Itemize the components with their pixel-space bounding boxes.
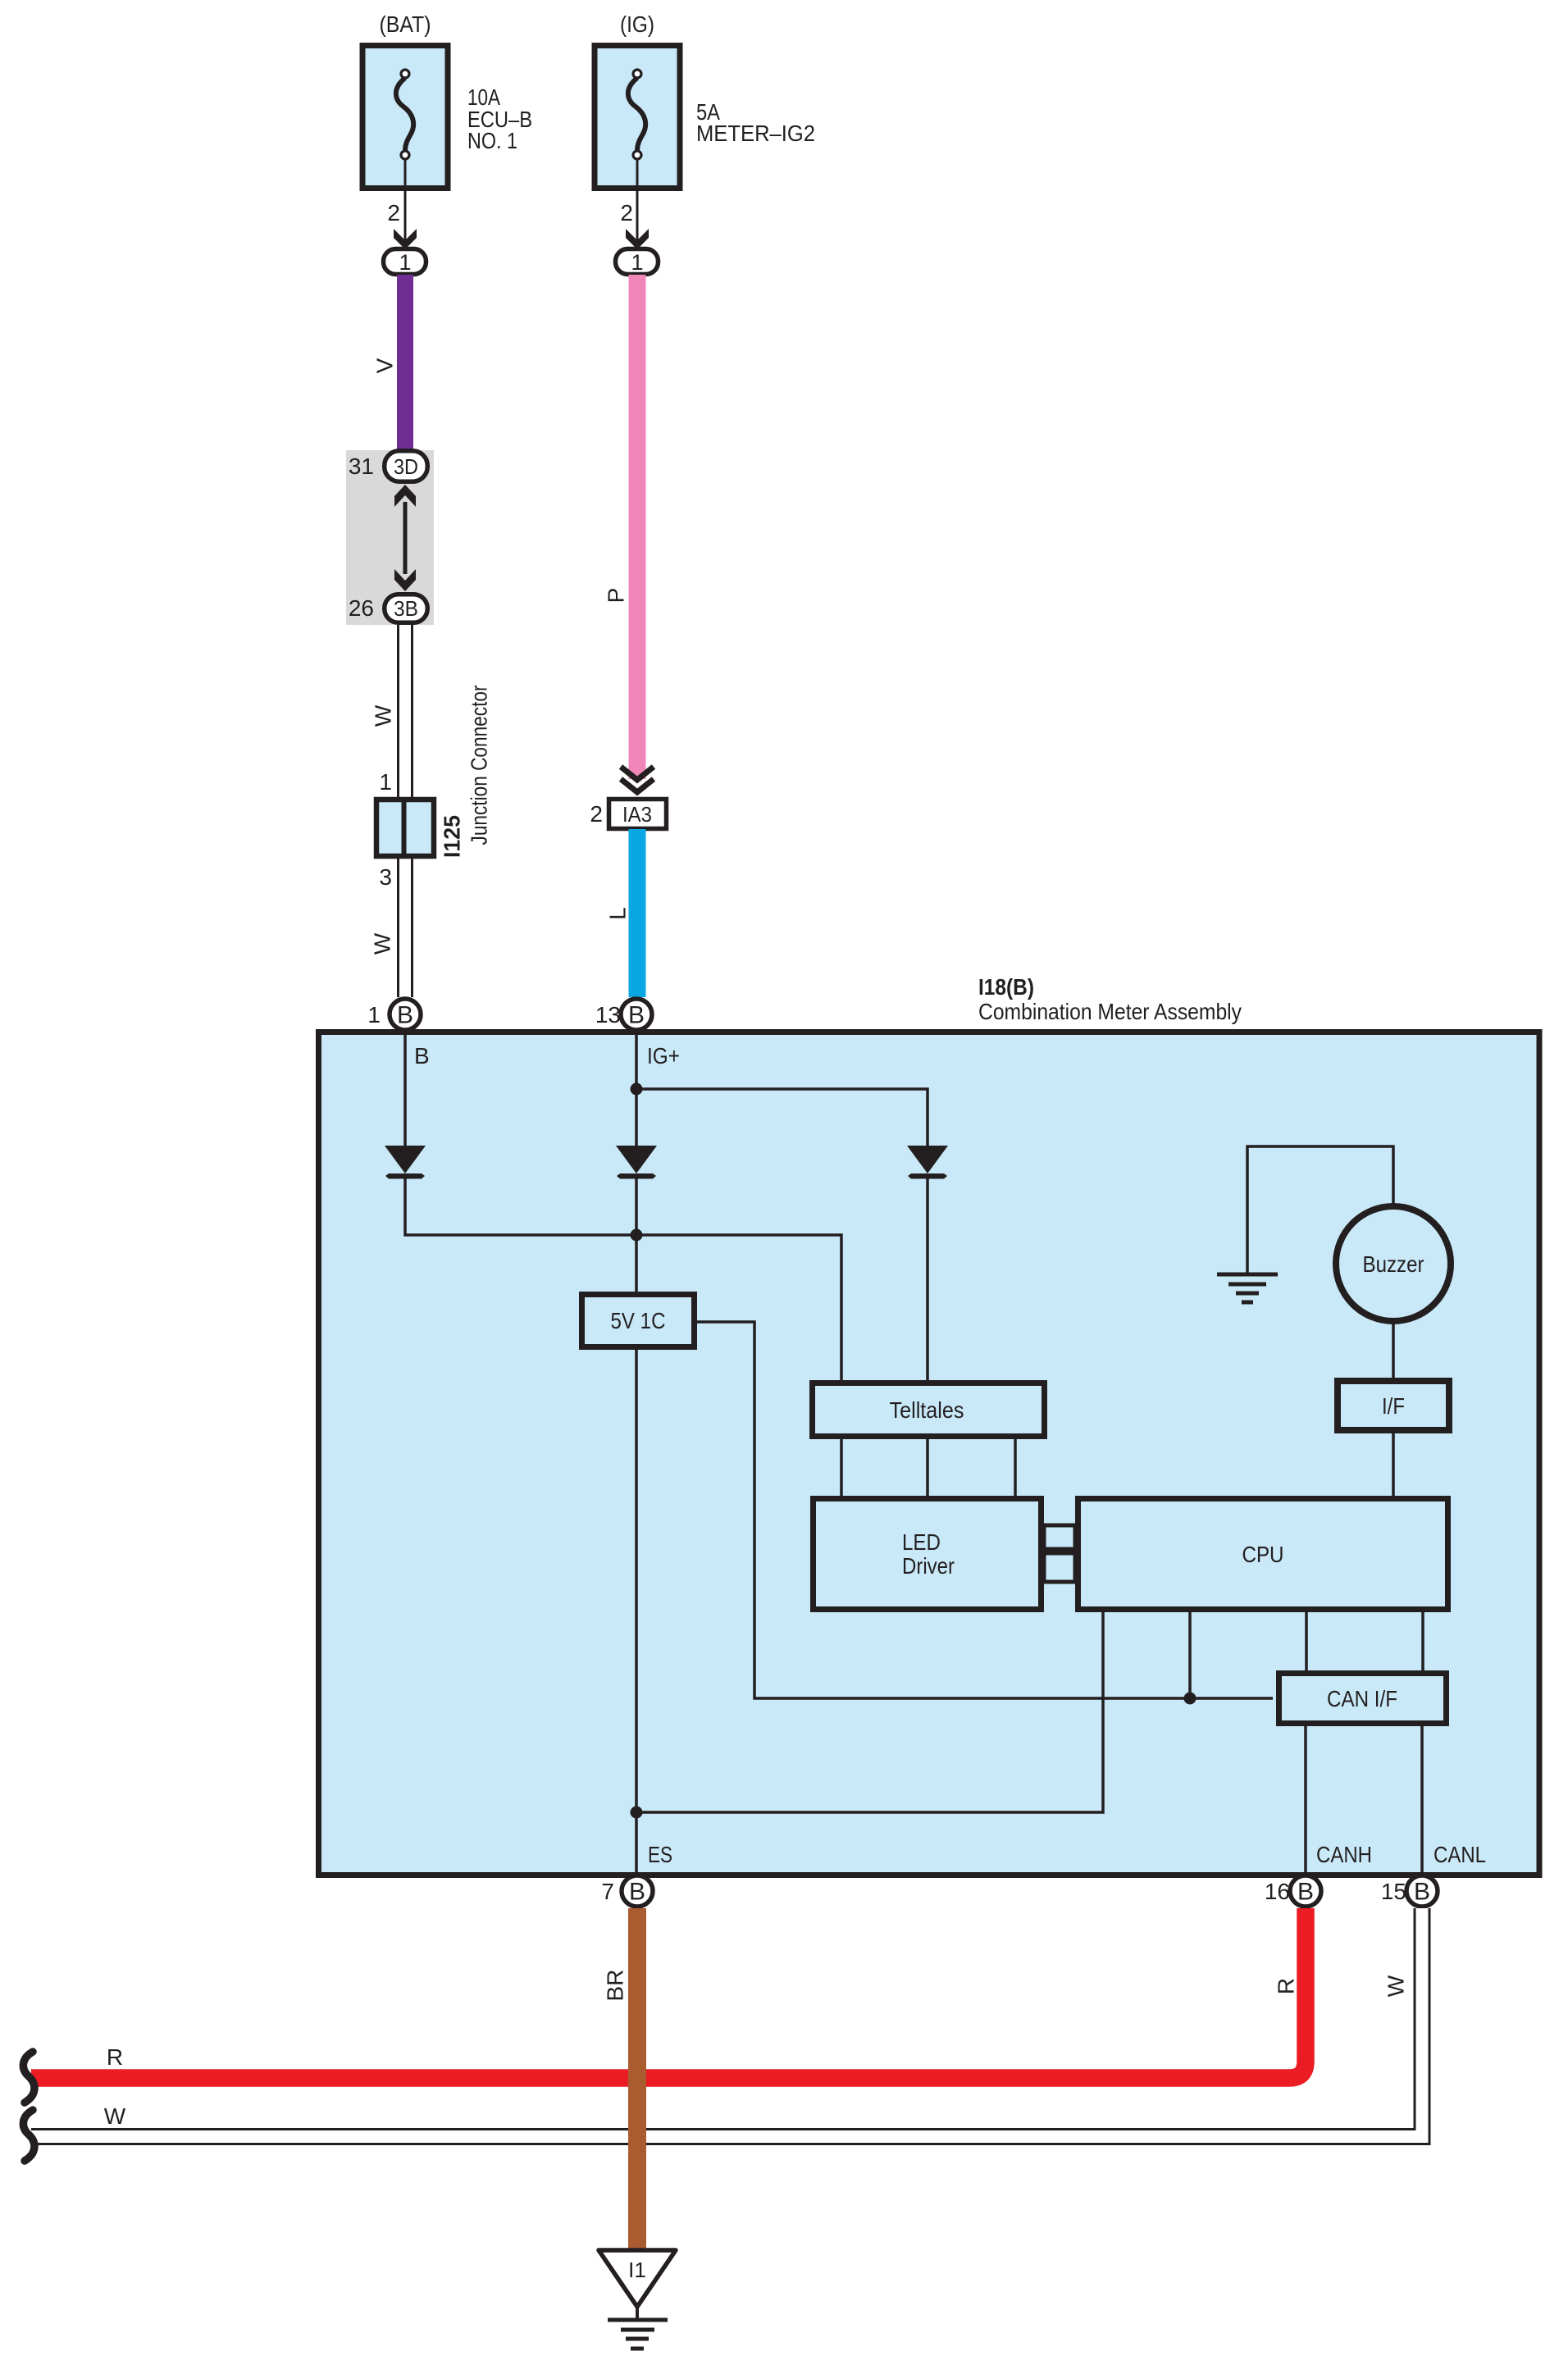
pin 13 connector B (top) <box>621 999 652 1030</box>
svg-text:7: 7 <box>601 1879 614 1904</box>
svg-text:NO. 1: NO. 1 <box>467 128 517 153</box>
node junction on IG+ <box>631 1083 643 1096</box>
arrow link between 3D and 3B <box>394 485 416 591</box>
svg-text:5V 1C: 5V 1C <box>611 1308 666 1333</box>
wire D3 to telltales <box>926 1178 929 1380</box>
svg-text:Junction Connector: Junction Connector <box>467 686 492 845</box>
wire fuse F2 pin 2 to connector 1 <box>626 159 649 249</box>
connector pin oval 1 (below F1) <box>384 249 426 276</box>
wire CPU to CAN I/F (left) <box>1305 1612 1308 1670</box>
svg-text:B: B <box>397 1001 413 1028</box>
wire I/F to CPU <box>1392 1433 1395 1496</box>
svg-text:3: 3 <box>379 864 392 890</box>
wire IG+ branch to diode D3 <box>636 1089 928 1146</box>
svg-text:B: B <box>414 1043 430 1069</box>
svg-text:I/F: I/F <box>1382 1393 1405 1419</box>
wire CAN I/F to pin 15 <box>1420 1726 1424 1872</box>
svg-text:CANH: CANH <box>1316 1842 1372 1867</box>
connector 3B <box>385 595 428 623</box>
svg-text:W: W <box>1383 1975 1409 1997</box>
svg-text:1: 1 <box>379 769 392 795</box>
svg-text:(IG): (IG) <box>620 11 654 37</box>
svg-text:Combination Meter Assembly: Combination Meter Assembly <box>978 999 1242 1024</box>
connector 3D <box>385 451 428 482</box>
block CPU <box>1078 1499 1448 1610</box>
pin 15 connector B (bottom) <box>1406 1875 1438 1907</box>
wire fuse F1 pin 2 to connector 1 <box>394 159 417 249</box>
svg-text:1: 1 <box>631 250 643 275</box>
wire B line to diode D1 <box>403 1035 407 1146</box>
block Telltales <box>813 1383 1045 1437</box>
svg-text:26: 26 <box>349 595 374 621</box>
connector pin oval 1 (below F2) <box>616 249 659 276</box>
diode D1 <box>385 1146 426 1179</box>
svg-text:2: 2 <box>620 200 633 226</box>
wire CPU to 5V/CAN line <box>1188 1612 1192 1698</box>
svg-text:I18(B): I18(B) <box>978 974 1034 1000</box>
block CAN I/F <box>1279 1674 1447 1724</box>
node junction bus/ES <box>631 1229 643 1242</box>
diode D3 <box>907 1146 948 1179</box>
svg-text:2: 2 <box>387 200 400 226</box>
buzzer <box>1336 1206 1451 1321</box>
svg-text:W: W <box>370 932 395 955</box>
svg-text:(BAT): (BAT) <box>380 11 431 37</box>
wire D2 to 5V regulator <box>635 1178 638 1292</box>
wire 5V1C to CAN I/F <box>697 1322 1273 1698</box>
bus links LED driver to CPU <box>1044 1525 1075 1582</box>
wire V (violet) from fuse F1 <box>397 275 413 450</box>
svg-text:BR: BR <box>603 1970 628 2002</box>
wire ES line <box>635 1350 638 1872</box>
wire CPU to ES junction <box>636 1612 1103 1812</box>
svg-text:13: 13 <box>595 1002 621 1028</box>
svg-text:IA3: IA3 <box>622 802 652 827</box>
svg-text:Telltales: Telltales <box>890 1397 964 1423</box>
svg-text:Driver: Driver <box>902 1553 955 1579</box>
connector IA3 <box>609 800 667 829</box>
svg-text:W: W <box>371 704 396 727</box>
ground (internal) <box>1217 1274 1278 1302</box>
svg-text:IG+: IG+ <box>647 1043 680 1069</box>
pin 7 connector B (bottom) <box>622 1875 653 1907</box>
svg-text:Buzzer: Buzzer <box>1363 1251 1424 1277</box>
wire IG+ line to diode D2 <box>635 1035 638 1146</box>
wire CPU to CAN I/F (right) <box>1421 1612 1424 1670</box>
svg-text:ES: ES <box>648 1842 672 1867</box>
svg-text:W: W <box>104 2103 126 2129</box>
svg-text:3D: 3D <box>394 454 418 479</box>
pin 16 connector B (bottom) <box>1290 1875 1321 1907</box>
svg-text:16: 16 <box>1265 1879 1290 1904</box>
svg-text:B: B <box>1414 1878 1430 1905</box>
wire buzzer to I/F <box>1392 1321 1395 1378</box>
svg-text:METER–IG2: METER–IG2 <box>696 121 815 146</box>
label 10A ECU-B NO.1 <box>467 84 532 153</box>
wire R (red) pin 16 to left <box>31 1908 1306 2078</box>
svg-text:I125: I125 <box>440 815 465 858</box>
svg-text:1: 1 <box>367 1002 381 1028</box>
svg-text:B: B <box>628 1001 645 1028</box>
svg-text:LED: LED <box>902 1529 941 1555</box>
wire CAN I/F to pin 16 <box>1304 1726 1307 1872</box>
svg-text:L: L <box>605 907 631 920</box>
wire P (pink) from fuse F2 <box>629 275 646 779</box>
svg-text:3B: 3B <box>394 596 418 621</box>
block LED Driver <box>814 1499 1042 1610</box>
svg-text:2: 2 <box>590 801 603 827</box>
svg-text:R: R <box>107 2044 123 2070</box>
svg-text:B: B <box>1297 1878 1314 1905</box>
node junction ES <box>631 1807 643 1819</box>
wire buzzer top / ground <box>1247 1146 1393 1274</box>
fuse F1 10A ECU-B NO.1 (BAT) <box>362 11 448 189</box>
node junction CAN line <box>1184 1693 1197 1705</box>
diode D2 <box>616 1146 657 1179</box>
svg-text:R: R <box>1274 1978 1299 1994</box>
svg-text:P: P <box>604 588 629 604</box>
svg-text:CPU: CPU <box>1242 1542 1284 1567</box>
combination meter assembly box I18(B) <box>319 1032 1540 1875</box>
block I/F <box>1338 1381 1449 1430</box>
shield block (gray) around 3D/3B <box>346 450 434 625</box>
svg-text:31: 31 <box>349 453 374 479</box>
junction connector I125 <box>376 800 434 856</box>
break squiggle (R wire) <box>23 2052 34 2103</box>
svg-text:V: V <box>372 358 398 373</box>
svg-text:I1: I1 <box>628 2258 646 2282</box>
svg-text:1: 1 <box>399 250 411 275</box>
label 5A METER-IG2 <box>696 99 815 146</box>
break squiggle (W wire) <box>23 2110 34 2161</box>
wire W (white outlined) pin 15 to left <box>28 1908 1422 2137</box>
regulator 5V 1C <box>582 1295 695 1347</box>
svg-text:B: B <box>629 1878 645 1905</box>
wire L (blue) IA3 to pin 13 <box>629 829 646 997</box>
svg-text:15: 15 <box>1381 1879 1406 1904</box>
double chevron arrows into IA3 <box>621 767 654 792</box>
pin 1 connector B (top) <box>390 999 421 1030</box>
svg-text:CANL: CANL <box>1434 1842 1486 1867</box>
wires telltales to LED driver <box>841 1439 1015 1496</box>
svg-text:CAN I/F: CAN I/F <box>1327 1686 1397 1711</box>
wire W (white, outlined) 3B to I18(B) pin 1 <box>397 625 413 997</box>
wire D1 anode to bus <box>405 1178 841 1380</box>
fuse F2 5A METER-IG2 (IG) <box>595 11 680 189</box>
wire BR (brown) pin 7 to ground <box>628 1908 646 2250</box>
ground I1 <box>599 2250 676 2349</box>
